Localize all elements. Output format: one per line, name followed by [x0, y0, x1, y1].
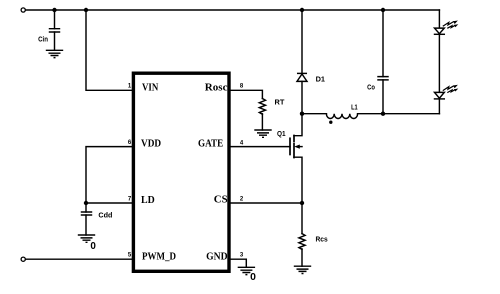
svg-text:L1: L1: [351, 104, 358, 111]
svg-text:Rosc: Rosc: [205, 82, 228, 93]
svg-text:1: 1: [128, 84, 132, 90]
svg-text:8: 8: [240, 84, 244, 90]
svg-text:VIN: VIN: [142, 82, 159, 93]
svg-text:Rcs: Rcs: [316, 237, 328, 244]
svg-text:GATE: GATE: [198, 138, 223, 149]
svg-text:2: 2: [240, 196, 244, 202]
svg-text:CS: CS: [214, 195, 228, 206]
svg-text:RT: RT: [275, 100, 286, 107]
svg-text:Cin: Cin: [38, 37, 48, 44]
svg-text:Q1: Q1: [277, 131, 286, 138]
svg-text:PWM_D: PWM_D: [142, 251, 176, 262]
svg-text:3: 3: [240, 252, 244, 258]
svg-text:5: 5: [128, 253, 132, 259]
svg-text:0: 0: [250, 272, 256, 283]
svg-text:D1: D1: [316, 76, 326, 83]
svg-text:7: 7: [128, 196, 132, 202]
svg-text:Cdd: Cdd: [98, 212, 112, 219]
svg-text:6: 6: [128, 140, 132, 146]
svg-text:0: 0: [90, 241, 96, 252]
svg-text:LD: LD: [141, 195, 155, 206]
svg-text:Co: Co: [367, 84, 375, 91]
svg-text:VDD: VDD: [141, 139, 161, 150]
svg-text:4: 4: [240, 140, 244, 146]
svg-text:GND: GND: [206, 252, 228, 263]
